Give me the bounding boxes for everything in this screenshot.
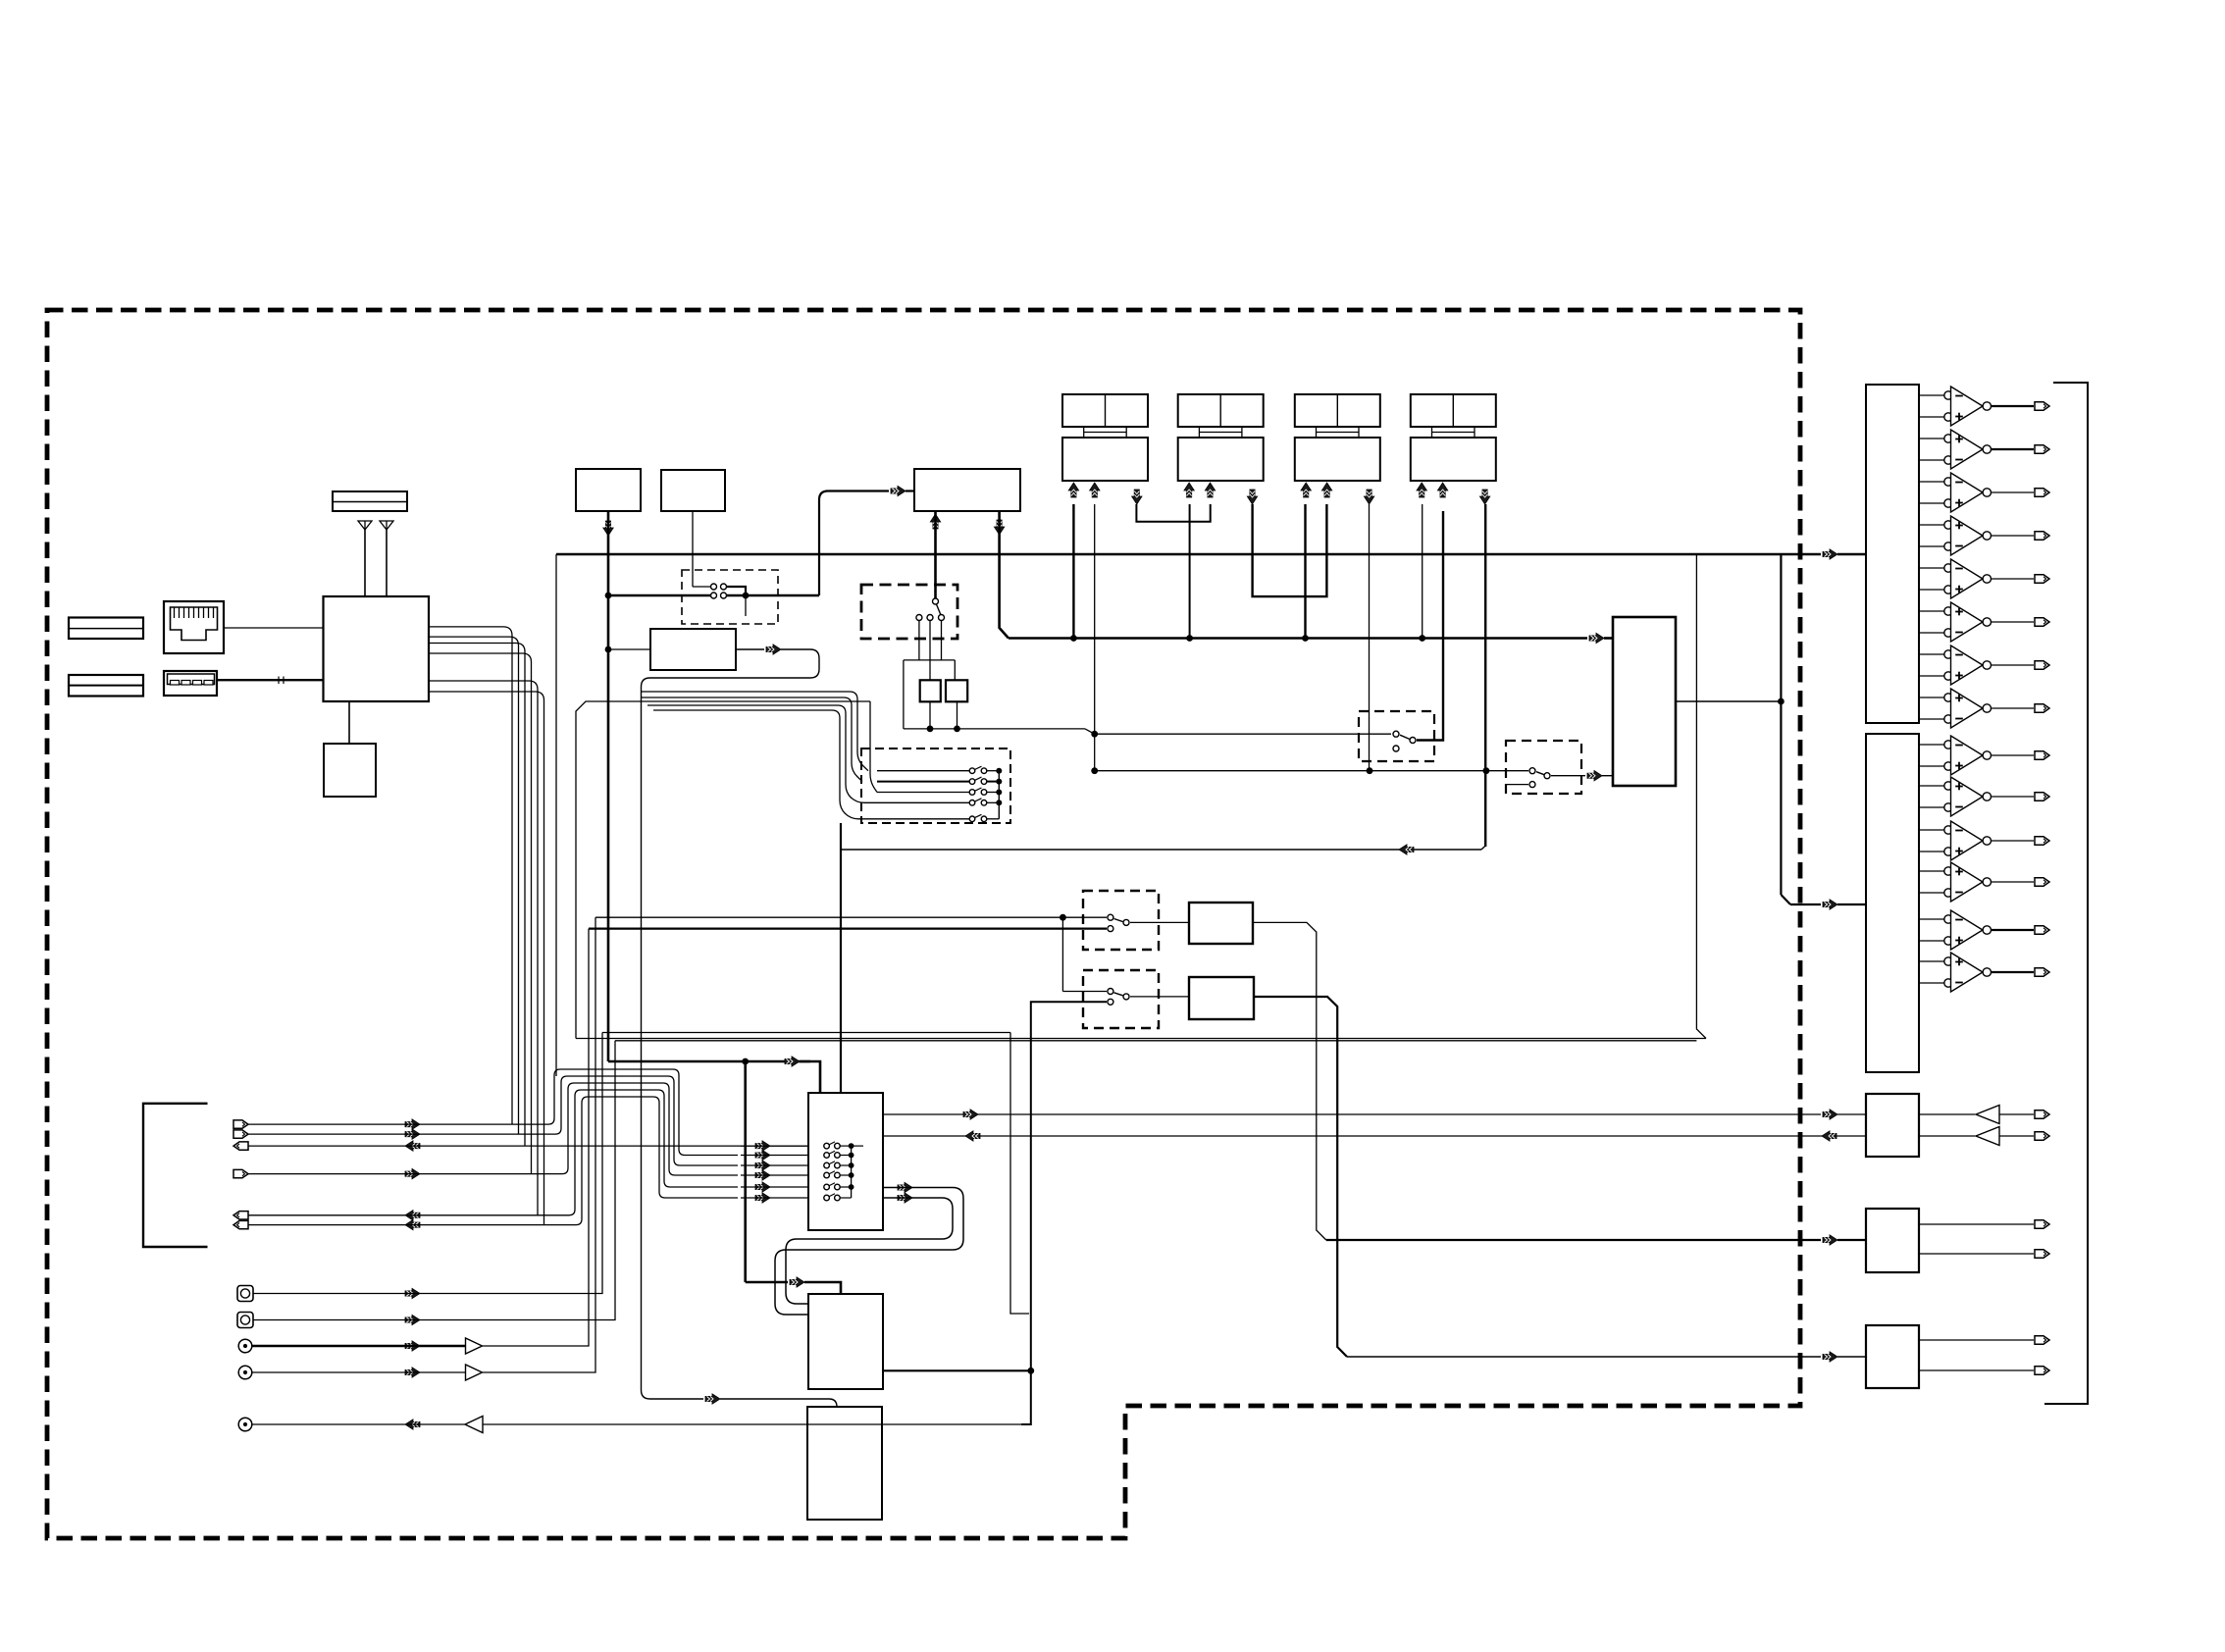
- connector ob3 a: [2035, 1336, 2049, 1344]
- HDMI group 3 receiver box: [1295, 438, 1380, 481]
- junction selector out: [1778, 698, 1785, 705]
- selector/DSP box: [1613, 617, 1676, 786]
- SW2 contact2: [927, 615, 933, 621]
- main bus horizontal y565: [556, 553, 1821, 556]
- SW2 c1 down: [918, 621, 920, 660]
- optical connector 1: [237, 1286, 253, 1302]
- dashed main-unit border: [47, 310, 1800, 1538]
- arrow into ob1: [1823, 1110, 1837, 1119]
- amp driver block 1: [1866, 385, 1919, 723]
- wire into box3c top: [720, 1399, 837, 1407]
- mux feed row2: [642, 697, 863, 782]
- thick HDMI collect bus y650: [1009, 637, 1587, 640]
- wire to output box2: [1326, 1239, 1821, 1241]
- b2r out down to ob3: [1254, 997, 1347, 1357]
- SW1 output thick: [727, 594, 819, 597]
- mux feed row1: [642, 692, 869, 771]
- arrow ARC return: [1399, 845, 1414, 854]
- power amp U1-1: [1919, 394, 1944, 396]
- connector ob2 a: [2035, 1220, 2049, 1228]
- dashed switch box sw2c: [1083, 970, 1159, 1028]
- junction box-A line / box E input: [605, 646, 612, 653]
- SW1 link down: [727, 587, 746, 594]
- ob1 triangle b: [1976, 1127, 1999, 1146]
- line from output box1 (return): [883, 1135, 1866, 1137]
- SW-B alt stub: [1506, 784, 1528, 786]
- SW-B dashed box: [1506, 741, 1581, 794]
- mux feed row4: [647, 705, 877, 802]
- ob3 out a: [1919, 1339, 2034, 1341]
- ob1 triangle a: [1976, 1106, 1999, 1124]
- arrow box1c row6: [755, 1193, 770, 1203]
- box2c output loop: [883, 1369, 1031, 1371]
- speaker terminal row 4: [233, 1169, 248, 1177]
- box2c: [808, 1294, 883, 1389]
- selector output: [1676, 700, 1781, 702]
- speaker terminal row 5: [233, 1212, 248, 1219]
- line to output box1 (send): [883, 1113, 1821, 1115]
- processing box b2r: [1189, 977, 1254, 1019]
- ARC return line y866: [841, 849, 1481, 851]
- sw1c to b1r: [1130, 921, 1189, 923]
- speaker terminal bracket right: [2044, 383, 2088, 1404]
- power amp U2-2: [1919, 785, 1944, 787]
- RCA jack monitor out: [238, 1418, 252, 1431]
- SW-B contact in: [1529, 768, 1535, 774]
- wifi/bt antenna module: [333, 491, 407, 511]
- SW1 row2 thick from box A line: [608, 594, 710, 597]
- rca2 to lineA: [483, 917, 595, 1372]
- dashed switch box sw1c: [1083, 891, 1159, 950]
- long horizontal y1058: [576, 1038, 1706, 1040]
- arrow selector input2: [1587, 771, 1602, 781]
- SW2 pivot: [933, 598, 939, 604]
- sw2c in: [1108, 989, 1113, 995]
- bus pair A from SoC: [429, 627, 512, 1124]
- line buffer amp triangle rca1: [466, 1338, 483, 1354]
- bundle path y715 to x587 drop: [576, 701, 870, 1039]
- junction HDMI4 drop: [1483, 767, 1490, 774]
- sw1c lever: [1114, 919, 1123, 922]
- drop to y786 net: [1094, 734, 1096, 771]
- box E output: [736, 648, 764, 650]
- speaker relay box1c: [808, 1093, 883, 1230]
- bold dashed switch box SW2: [861, 585, 957, 639]
- lineB thick to sw1c: [589, 927, 1107, 929]
- HDMI group 1 receiver box: [1062, 438, 1148, 481]
- trunk 1729 down: [1696, 554, 1706, 1039]
- bus pair B from SoC: [429, 644, 525, 1147]
- wire to output box3: [1347, 1356, 1821, 1358]
- SW1 contact b1: [711, 593, 717, 598]
- wire RJ45 to SoC: [224, 627, 324, 629]
- junction HDMI2: [1186, 635, 1193, 642]
- HDMI group 2 top connector: [1178, 394, 1264, 427]
- wire box B down to SW1: [692, 511, 694, 587]
- antenna 1: [358, 521, 372, 530]
- SW-A contact alt: [1393, 746, 1399, 751]
- speaker terminal row 2: [233, 1130, 248, 1138]
- sw1c in: [1108, 914, 1113, 920]
- power amp U1-4: [1919, 524, 1944, 526]
- processing box b1r: [1189, 903, 1253, 944]
- box C (HDMI controller): [914, 469, 1020, 511]
- HDMI group 4 receiver box: [1411, 438, 1496, 481]
- arrow into box3c: [705, 1394, 720, 1404]
- box1c collector stub: [852, 1145, 863, 1147]
- corner into box1c: [800, 1061, 820, 1093]
- junction boxR bottom: [954, 726, 960, 733]
- arrow box1c row1: [755, 1141, 770, 1151]
- junction jog: [1091, 731, 1098, 738]
- sw1c alt: [1108, 926, 1113, 932]
- sw1c out: [1123, 919, 1129, 925]
- bottom rail: [904, 728, 1085, 730]
- junction y1082: [742, 1058, 749, 1065]
- optical connector 2: [237, 1313, 253, 1328]
- SW1 contact a1: [711, 584, 717, 590]
- long line y1061: [615, 1040, 1696, 1042]
- SW1 stub down: [745, 595, 747, 616]
- arrow into output box3: [1823, 1352, 1837, 1362]
- speaker terminal bracket: [143, 1104, 208, 1247]
- SW-A lever: [1400, 735, 1410, 739]
- speaker row 1 routing: [248, 1069, 738, 1156]
- speaker terminal row 6: [233, 1220, 248, 1228]
- HDMI group 1 top connector: [1062, 394, 1148, 427]
- SW2 contact3: [939, 615, 945, 621]
- junction box2c out: [1027, 1368, 1034, 1374]
- ob1 line b right: [1919, 1135, 1975, 1137]
- monitor out to jack: [252, 1423, 465, 1425]
- thick wire box C pin2 down: [1000, 511, 1009, 639]
- power amp U1-3: [1919, 481, 1944, 483]
- wire into box E: [608, 648, 650, 650]
- ob2 out a: [1919, 1223, 2034, 1225]
- bar connector 1: [69, 618, 143, 640]
- junction boxL bottom: [927, 726, 934, 733]
- output box ob3: [1866, 1325, 1919, 1388]
- junction y786 net: [1091, 767, 1098, 774]
- vertical 857 into box1c: [840, 823, 842, 1093]
- loop vertical x1051 down to monitor: [1021, 1002, 1107, 1424]
- speaker row 4 routing: [248, 1083, 738, 1175]
- connector ob2 b: [2035, 1250, 2049, 1258]
- power amp U1-7: [1919, 653, 1944, 655]
- arrow into box C: [891, 486, 906, 495]
- RCA jack 1: [238, 1339, 252, 1353]
- SW2 c2 into box L: [929, 621, 931, 681]
- HDMI1 wire b: [1094, 504, 1096, 734]
- SW-A contact in: [1393, 731, 1399, 737]
- HDMI4 wire a: [1422, 504, 1423, 639]
- drop x1030: [1010, 1033, 1029, 1315]
- mux switch row 3: [877, 792, 969, 794]
- SW1 contact a2: [721, 584, 727, 590]
- speaker terminal row 3: [233, 1142, 248, 1150]
- thick wire box C pin1 down to switch: [934, 511, 937, 598]
- mux feed row5: [653, 710, 877, 819]
- mux switch row 4: [877, 801, 969, 803]
- wire USB to SoC: [217, 679, 324, 681]
- box1c switch row 3: [824, 1162, 830, 1168]
- thick vertical from box A: [607, 511, 610, 1061]
- mux switch row 5: [877, 818, 969, 820]
- record selector dashed mux box: [861, 749, 1010, 823]
- long line y1052: [602, 1032, 1010, 1034]
- HDMI group 1 arrows: [1068, 483, 1078, 497]
- junction HDMI3: [1302, 635, 1309, 642]
- monitor out long line: [483, 1423, 1021, 1425]
- speaker row 6 routing: [248, 1097, 738, 1225]
- junction HDMI1: [1070, 635, 1077, 642]
- arrow optical2: [405, 1315, 420, 1324]
- power amp U1-2: [1919, 438, 1944, 439]
- arrow ob1 send: [963, 1110, 978, 1119]
- HDMI3 wire b down: [1369, 504, 1371, 771]
- power amp U1-5: [1919, 567, 1944, 569]
- wire SoC to sub module: [348, 701, 350, 744]
- power amp U2-1: [1919, 744, 1944, 746]
- HDMI1 wire a: [1072, 504, 1074, 639]
- power amp U1-8: [1919, 697, 1944, 698]
- junction lineA drop: [1060, 914, 1066, 921]
- thick line y1082: [608, 1060, 810, 1063]
- box1c switch row 1: [824, 1143, 830, 1149]
- SW-B output: [1551, 775, 1585, 777]
- box B: [661, 470, 725, 511]
- thick drop to box2c feed: [744, 1061, 747, 1282]
- arrow into output box2: [1823, 1235, 1837, 1245]
- component box R: [946, 680, 967, 701]
- HDMI2 out to HDMI3 link: [1253, 504, 1327, 596]
- diagonal jog: [1085, 729, 1095, 734]
- bar connector 2: [69, 675, 143, 697]
- speaker row 5 routing: [248, 1090, 738, 1215]
- ob3 out b: [1919, 1369, 2034, 1371]
- arrow box1c row4: [755, 1170, 770, 1180]
- SW-A thick wire up to HDMI4: [1417, 511, 1443, 741]
- RJ45 LAN connector: [164, 601, 224, 653]
- output box ob2: [1866, 1209, 1919, 1272]
- HDMI group 4 top connector: [1411, 394, 1496, 427]
- HDMI2 wire a: [1189, 504, 1191, 639]
- wire to amp block2: [1790, 903, 1821, 905]
- SW2 lever: [937, 604, 941, 615]
- connector ob1 a: [2035, 1110, 2049, 1118]
- SW-B lever: [1536, 772, 1544, 775]
- power amp U2-3: [1919, 829, 1944, 831]
- box C pin2 arrow down: [994, 520, 1004, 535]
- junction box-A line / switch row: [605, 593, 612, 599]
- optical1 line up: [253, 1033, 602, 1294]
- mux feed row3: [870, 701, 877, 793]
- arrow ob1 return: [965, 1131, 980, 1141]
- sw2c to b2r: [1130, 996, 1189, 998]
- network/main SoC box: [324, 596, 430, 701]
- junction HDMI4: [1419, 635, 1425, 642]
- box1c switch row 2: [824, 1153, 830, 1159]
- bus-H left drop x567: [555, 554, 557, 1076]
- power amp U2-5: [1919, 918, 1944, 920]
- arrow ob1 return at border: [1822, 1131, 1837, 1141]
- sub module box below SoC: [324, 744, 376, 797]
- drop to sw2c: [1061, 917, 1063, 991]
- SW1 contact b2: [721, 593, 727, 598]
- wire SW1 up to box C: [819, 491, 889, 596]
- rail left drop: [903, 660, 905, 729]
- dashed switch box SW1: [682, 570, 778, 624]
- speaker row3 straight to box1c: [248, 1145, 808, 1147]
- HDMI group 2 receiver box: [1178, 438, 1264, 481]
- SW-A contact out: [1410, 738, 1416, 744]
- SW-B contact alt: [1529, 782, 1535, 788]
- arrow monitor out: [405, 1420, 420, 1429]
- HDMI group 3 top connector: [1295, 394, 1380, 427]
- component box L: [920, 680, 941, 701]
- mux collector: [998, 771, 1000, 819]
- box1c switch row 4: [824, 1172, 830, 1178]
- line buffer amp triangle rca2: [466, 1365, 483, 1380]
- arrow into box2c wire: [790, 1277, 804, 1287]
- junction SW1: [743, 593, 750, 599]
- box A (tuner): [576, 469, 641, 511]
- junction HDMI3 drop: [1367, 767, 1373, 774]
- box E loop wire down: [642, 649, 820, 1399]
- SW2 contact1: [916, 615, 922, 621]
- b1r out down to ob2: [1253, 922, 1326, 1240]
- ob1 line a right: [1919, 1113, 1975, 1115]
- bus pair C from SoC: [429, 681, 538, 1215]
- optical2 line up: [253, 1041, 615, 1320]
- arrow rca2: [405, 1368, 420, 1377]
- HDMI3 wire a: [1304, 504, 1306, 639]
- net y786 into SW-B: [1095, 770, 1528, 772]
- mux switch row 2: [877, 781, 969, 783]
- antenna 2: [380, 521, 393, 530]
- rail under SW2: [904, 659, 955, 661]
- box2c feed: [746, 1281, 788, 1284]
- lineA to sw1c: [595, 916, 1107, 918]
- corner into box2c: [804, 1282, 841, 1294]
- box1c switch row 6: [824, 1195, 830, 1201]
- connector ob1 b: [2035, 1132, 2049, 1140]
- box1c switch row 5: [824, 1184, 830, 1190]
- rca1 to lineB: [483, 929, 589, 1346]
- box1c S-path outputs to box2c: [898, 1182, 912, 1192]
- arrow box E out: [766, 645, 781, 654]
- connector ob3 b: [2035, 1367, 2049, 1374]
- speaker terminal row 1: [233, 1120, 248, 1128]
- mux switch row 1: [877, 770, 969, 772]
- SW2 c3 down: [941, 621, 943, 660]
- power amp U1-6: [1919, 610, 1944, 612]
- arrow box1c row5: [755, 1182, 770, 1192]
- power amp U2-4: [1919, 870, 1944, 872]
- HDMI group 4 arrows: [1417, 483, 1426, 497]
- sw2c alt: [1108, 999, 1113, 1005]
- rail y748 to SW-A: [1095, 733, 1391, 735]
- arrow into amp block2: [1823, 900, 1837, 909]
- box E: [650, 629, 736, 670]
- HDMI4 wire c down: [1484, 504, 1486, 847]
- arrow into amp block1: [1823, 549, 1837, 559]
- power amp U2-6: [1919, 960, 1944, 962]
- HDMI group 2 arrows: [1184, 483, 1194, 497]
- arrow optical1: [405, 1288, 420, 1298]
- USB connector: [164, 671, 217, 696]
- SW-B contact out: [1544, 773, 1550, 779]
- amp driver block 2: [1866, 734, 1919, 1072]
- sw2c lever: [1114, 993, 1123, 996]
- speaker row 2 routing: [248, 1076, 738, 1165]
- arrow box1c row2: [755, 1150, 770, 1160]
- HDMI group 3 arrows: [1301, 483, 1311, 497]
- box C pin1 arrow up: [930, 514, 940, 529]
- ob2 out b: [1919, 1253, 2034, 1255]
- arrow rca1: [405, 1341, 420, 1351]
- sw2c out: [1123, 994, 1129, 1000]
- arrow into selector: [1589, 633, 1604, 643]
- rca1 line thick: [252, 1345, 465, 1347]
- arrow box1c row3: [755, 1161, 770, 1170]
- SW-A dashed box: [1359, 711, 1434, 761]
- box3c: [807, 1407, 882, 1520]
- box1c collector: [851, 1146, 853, 1198]
- arrow into box1c top wire: [785, 1057, 800, 1066]
- monitor out buffer triangle left: [465, 1417, 483, 1433]
- HDMI1 out to HDMI2 link: [1136, 504, 1210, 522]
- rail right drop: [954, 660, 956, 680]
- RCA jack 2: [238, 1366, 252, 1379]
- box A output arrow down: [603, 521, 613, 536]
- rca2 line: [252, 1371, 465, 1373]
- output box ob1 (phones): [1866, 1094, 1919, 1157]
- vertical 1815 bus tap: [1780, 554, 1782, 895]
